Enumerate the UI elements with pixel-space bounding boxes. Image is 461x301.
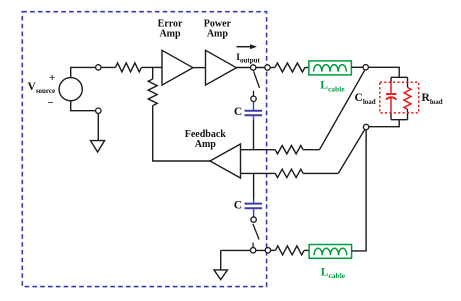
node load return <box>363 124 368 129</box>
svg-text:C: C <box>234 200 242 212</box>
switch S1 blade <box>254 71 260 88</box>
node cable top output <box>363 65 368 70</box>
svg-text:Amp: Amp <box>195 139 217 150</box>
wire ground lead under source <box>97 111 99 141</box>
wire load bottom to return node <box>368 120 399 127</box>
switch S1 lower stub <box>253 91 255 97</box>
resistor feedback top <box>275 146 303 154</box>
resistor input R <box>115 63 141 72</box>
wire junction down to feedback resistor <box>152 67 154 79</box>
resistor cable series (top) <box>275 63 305 72</box>
capacitor C (upper, blue) lead <box>253 101 255 110</box>
wire port node to series resistor <box>270 67 275 69</box>
wire ground drop <box>220 250 222 270</box>
wire resistor to inductor box <box>305 67 309 69</box>
node switch S2 bottom <box>250 248 255 253</box>
wire load bottom rail <box>391 119 408 121</box>
svg-text:Amp: Amp <box>207 29 229 40</box>
ground (source) <box>91 141 105 152</box>
svg-text:Amp: Amp <box>159 29 181 40</box>
wire Vsource top lead <box>71 67 116 77</box>
node switch S1 bottom <box>251 96 256 101</box>
resistor feedback divider (vertical) <box>148 79 157 106</box>
wire resistor to bottom inductor <box>304 249 309 251</box>
svg-text:Cload: Cload <box>355 92 376 106</box>
wire error amp to power amp <box>193 67 206 69</box>
wire resistor to error amp <box>141 66 162 68</box>
capacitor C_load (red) <box>390 83 392 93</box>
wire feedback divider to feedback amp output <box>153 106 210 161</box>
node source top <box>96 65 101 70</box>
wire load top rail <box>391 76 408 78</box>
svg-text:Rload: Rload <box>422 92 443 106</box>
capacitor C (lower, blue) plates <box>245 203 263 205</box>
switch S2 blade <box>253 224 259 240</box>
wire power amp to output node <box>236 67 265 69</box>
wire capacitor to feedback top junction <box>253 120 255 150</box>
amplifier boundary dashed box <box>22 12 266 287</box>
resistor R_load (red) <box>404 87 411 109</box>
wire load right top stub <box>407 77 409 87</box>
wire load left bottom stub <box>390 112 392 120</box>
capacitor C (upper) bottom lead <box>253 116 255 120</box>
op-amp Error Amp <box>162 50 193 85</box>
node source bottom <box>96 108 101 113</box>
wire diagonal return node to feedback bottom <box>338 129 365 173</box>
wire load left top stub <box>390 77 392 83</box>
resistor feedback bottom <box>275 169 303 177</box>
node port top <box>265 65 270 70</box>
capacitor C (upper, blue) plates <box>245 110 263 112</box>
arrow Ioutput <box>237 46 252 48</box>
inductor L_cable (bottom) <box>309 245 352 259</box>
wire port to bottom resistor <box>270 249 276 251</box>
load dashed outline (red) <box>380 82 419 113</box>
wire feedback top horizontal <box>303 149 319 151</box>
svg-text:Lcable: Lcable <box>320 80 345 94</box>
voltage source Vsource <box>59 78 82 101</box>
node switch S2 top <box>251 217 256 222</box>
wire feedback bottom junction to lower capacitor <box>253 173 255 199</box>
node output (switch S1 top) <box>251 65 256 70</box>
svg-text:Lcable: Lcable <box>321 266 346 280</box>
wire feedback bottom to amp <box>241 172 276 174</box>
capacitor C (lower, blue) lead <box>253 200 255 203</box>
ground (bottom rail) <box>214 270 227 280</box>
svg-text:Ioutput: Ioutput <box>236 53 260 64</box>
svg-text:C: C <box>234 106 242 118</box>
wire inductor to load node <box>351 66 365 68</box>
wire diagonal load node to feedback top <box>320 69 366 149</box>
wire load right bottom stub <box>407 109 409 119</box>
wire feedback bottom horizontal <box>303 172 338 174</box>
op-amp Power Amp <box>206 50 237 85</box>
wire bottom rail left to ground <box>221 249 266 251</box>
resistor cable series (bottom) <box>275 246 304 255</box>
switch S2 lower stub <box>252 243 254 248</box>
wire load node to load top <box>366 67 400 77</box>
capacitor C (lower) bottom lead <box>253 209 255 217</box>
svg-text:−: − <box>47 97 53 109</box>
wire bottom inductor to return riser <box>352 129 367 251</box>
op-amp Feedback Amp <box>210 144 241 178</box>
wire Vsource bottom lead <box>71 101 99 111</box>
svg-text:+: + <box>49 72 55 84</box>
inductor L_cable (top) <box>309 61 352 75</box>
wire feedback top to amp <box>241 149 276 151</box>
node port bottom <box>265 248 270 253</box>
